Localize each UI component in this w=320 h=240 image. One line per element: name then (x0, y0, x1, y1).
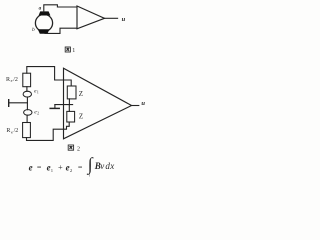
svg-text:u: u (122, 16, 126, 23)
op-amp U1 (fig 1 triangle) (77, 6, 105, 29)
svg-text:=: = (37, 163, 42, 172)
generator G1 (armature circle, fig 1) (35, 14, 52, 31)
resistor Re/2 upper (fig 2 box) (23, 73, 31, 87)
wire mid node to Z2 top (68, 105, 70, 112)
wire e2 to Re/2 lower (26, 115, 28, 122)
svg-text:u: u (141, 100, 145, 107)
wire U2 output (132, 105, 139, 107)
wire e1 to e2 (26, 97, 28, 110)
svg-text:2: 2 (37, 112, 39, 116)
wire brush b to amplifier input (fig 1) (45, 28, 77, 33)
wire Z1 bottom to mid node (68, 99, 70, 105)
svg-text:a: a (39, 6, 42, 12)
svg-text:R: R (6, 77, 10, 83)
ground bar (fig 2) (50, 107, 59, 109)
impedance Z1 (fig 2 box) (67, 86, 76, 99)
svg-text:/2: /2 (14, 128, 19, 134)
wire Re/2 upper to e1 (26, 87, 28, 92)
wire U1 output (fig 1) (105, 17, 118, 19)
resistor Re/2 lower (fig 2 box) (23, 123, 31, 138)
wire midpoint to input terminal (9, 102, 27, 104)
svg-text:Z: Z (79, 90, 83, 98)
impedance Z2 (fig 2 box) (67, 111, 75, 122)
svg-text:e: e (29, 163, 33, 173)
source e2 (fig 2) (24, 110, 32, 116)
svg-text:+: + (58, 163, 63, 172)
source e1 (fig 2) (23, 91, 31, 97)
equation e = e1 + e2 = integral B v dx (29, 154, 115, 178)
svg-text:1: 1 (37, 90, 39, 94)
svg-text:=: = (78, 163, 83, 172)
caption 图 2 (fig 2) (68, 145, 73, 150)
svg-text:1: 1 (72, 48, 75, 54)
svg-text:R: R (6, 128, 10, 134)
brush b (bottom, fig 1) (38, 29, 50, 33)
wire brush a to amplifier input (fig 1) (44, 5, 77, 12)
op-amp U2 (fig 2 triangle) (64, 68, 132, 139)
svg-text:v: v (100, 161, 104, 171)
wire bridge top to amplifier (fig 2) (27, 67, 71, 86)
svg-text:b: b (32, 27, 35, 33)
brush a (top, fig 1) (39, 11, 51, 15)
svg-text:x: x (109, 161, 114, 171)
mid node wire (fig 2) (55, 104, 73, 106)
svg-text:Z: Z (79, 112, 83, 120)
ground stub (fig 2) (54, 105, 56, 108)
wire bridge bottom to amplifier (fig 2) (27, 122, 70, 140)
svg-text:2: 2 (77, 146, 80, 152)
svg-text:/2: /2 (13, 77, 18, 83)
caption 图 1 (fig 1) (65, 47, 70, 52)
input terminal bar (fig 2) (8, 100, 10, 107)
